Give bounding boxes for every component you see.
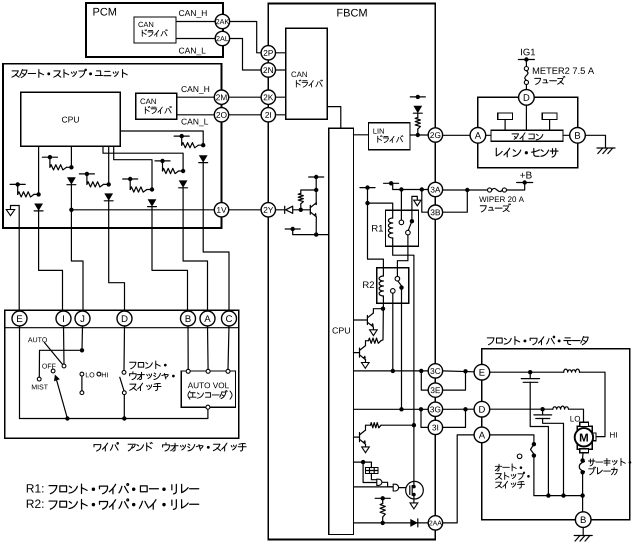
label PCM — [93, 8, 116, 16]
terminal 3C — [428, 364, 442, 378]
wire 2AL to 2N — [229, 39, 261, 71]
wire 3G line — [354, 408, 429, 410]
wire CPU to Qc base — [354, 436, 360, 438]
wire tap down (cell A) — [17, 184, 19, 194]
resistor R-E pullup — [163, 168, 179, 173]
wire resistor to node LIN — [417, 129, 419, 135]
label encoder katakana — [188, 391, 232, 400]
resistor R-Qb — [369, 338, 382, 343]
wire 2I to CAN driver — [276, 114, 286, 116]
wire Qa collector — [373, 309, 383, 313]
terminal E (motor) — [474, 364, 490, 380]
diode D-D series — [148, 199, 157, 206]
wire 3I outside riser — [443, 409, 466, 427]
relay R1 blade — [408, 221, 412, 230]
wire Qb emitter — [365, 360, 367, 363]
module box FBCM — [268, 4, 435, 540]
wire 1V internal line — [71, 209, 215, 211]
wire crystal top — [370, 462, 372, 468]
terminal 3I — [428, 420, 442, 434]
diode D-F series — [199, 155, 208, 162]
motor M body — [577, 426, 592, 449]
module box wiper washer switch — [5, 310, 239, 438]
label R1 legend katakana — [49, 484, 199, 494]
wire diode A to terminal I — [39, 211, 63, 312]
inductor L1 (HI) — [564, 369, 580, 372]
transistor Qb — [359, 348, 361, 357]
wire Qb collector to resistor — [366, 341, 369, 346]
wire 2P to CAN driver — [276, 52, 286, 54]
wire rail down (2Y) — [315, 177, 317, 205]
terminal B (switch) — [181, 311, 196, 326]
terminal 2P — [261, 46, 275, 60]
label CAN_L (SSU) — [181, 119, 208, 127]
wire 2M to 2K — [229, 96, 261, 98]
node 3C-3E tie — [419, 369, 423, 373]
label fuse katakana (WIPER) — [480, 204, 510, 212]
diode D-LIN — [413, 106, 422, 113]
ground arrow (Qa) — [370, 330, 378, 336]
auto-stop contact — [532, 453, 536, 457]
label CPU (FBCM) — [332, 327, 349, 333]
ground arrow (SSU) — [6, 210, 14, 216]
label auto-stop katakana 1 — [495, 464, 522, 471]
wire R2 coil line down — [381, 303, 383, 341]
MOSFET channel bar — [411, 486, 413, 496]
wire B to ground — [585, 135, 606, 148]
wire tap to emitter line — [293, 229, 317, 235]
wire IG1 to fuse — [525, 60, 527, 67]
label driver katakana (LIN) — [378, 136, 403, 143]
resistor R-2AA — [380, 504, 385, 518]
supply bar tap (cell B) — [42, 156, 57, 158]
terminal E (switch) — [12, 311, 27, 326]
MOSFET Q2 body — [406, 481, 424, 499]
logic gate G1 — [377, 479, 382, 485]
supply bar tap (cell C) — [79, 173, 94, 175]
CPU box (FBCM) — [329, 128, 354, 534]
wire resistor to node B1 — [67, 166, 72, 168]
wire MOSFET drain — [412, 425, 414, 486]
contact washer bottom — [122, 391, 126, 395]
ground arrow (MOSFET) — [410, 503, 418, 509]
label R2 legend latin — [27, 500, 44, 508]
terminal 2G — [428, 128, 442, 142]
wire E down — [19, 326, 21, 419]
wire J down — [81, 326, 84, 351]
wire microcomputer to B — [563, 134, 570, 136]
label MIST — [32, 385, 48, 390]
wire coil rail down — [368, 188, 384, 276]
wire tap down (cell E) — [162, 161, 164, 171]
wire CAN driver to CPU — [327, 107, 340, 129]
wire 2G to A — [443, 134, 471, 136]
relay R1 coil — [388, 218, 392, 238]
node bottom bus washer — [122, 416, 126, 420]
relay R2 contact NC — [395, 276, 400, 281]
contact LO lower — [80, 391, 84, 395]
switch blade with arrow — [57, 380, 68, 418]
resistor R-B pullup — [50, 165, 67, 170]
node bottom junction 1 — [546, 493, 550, 497]
CAN driver U10 (PCM) — [134, 17, 176, 43]
wire switch bottom bus — [20, 409, 208, 418]
wire MOSFET source — [412, 495, 414, 503]
wire diode to resistor — [417, 113, 419, 117]
label auto-stop katakana 2 — [496, 472, 530, 479]
wire gate2 to MOSFET gate — [399, 487, 406, 489]
label CAN_L (PCM) — [179, 48, 206, 56]
fuse METER2 7.5A — [524, 67, 528, 71]
diode D-B series — [67, 177, 76, 184]
wire Qc emitter — [365, 444, 367, 447]
CPU box (start-stop unit) — [21, 92, 121, 146]
node Y1 — [299, 208, 303, 212]
transistor Qc — [359, 433, 361, 442]
circuit breaker — [580, 458, 584, 462]
label HI — [610, 432, 617, 438]
node osc branch — [361, 460, 365, 464]
terminal J (switch) — [75, 311, 90, 326]
wire LO down — [81, 376, 83, 391]
wire CPU step to cell E — [103, 146, 183, 171]
encoder box AUTO VOL — [181, 371, 235, 407]
wire 2AK to 2P — [229, 22, 261, 53]
terminal B (motor) — [575, 512, 591, 528]
wire L2 to motor — [569, 409, 584, 424]
capacitor block left (rain sensor) — [498, 113, 513, 119]
terminal I (switch) — [56, 311, 71, 326]
wire resistor to node A1 — [34, 193, 39, 195]
washer blade — [120, 377, 124, 390]
label WIPER 20 A — [479, 196, 524, 202]
terminal 2AA — [428, 516, 442, 530]
wire D line — [490, 408, 553, 410]
node 2AA pull — [381, 521, 385, 525]
wire CPU to Qb base — [354, 352, 360, 354]
node motor bottom — [580, 493, 584, 497]
auto-stop blade — [531, 444, 534, 453]
wire B down (encoder) — [187, 326, 189, 370]
label METER2 7.5 A — [533, 67, 594, 74]
wire diode E to terminal A — [183, 187, 207, 311]
diode D-2Y — [284, 206, 286, 213]
wire diode F to terminal C — [203, 162, 229, 311]
label circuit breaker katakana 1 — [589, 458, 631, 465]
fuse WIPER 20A — [488, 188, 492, 192]
label washer switch katakana 3 — [130, 383, 161, 391]
terminal 1V — [214, 203, 228, 217]
wire tap down (cell D) — [129, 179, 131, 190]
supply bar tap (cell F) — [174, 135, 189, 137]
wire C down (encoder) — [228, 326, 229, 370]
label driver katakana (SSU) — [145, 106, 171, 113]
terminal 2AK — [215, 14, 229, 28]
transistor Q1 (2Y buffer) — [309, 205, 311, 214]
label IG1 — [521, 49, 535, 56]
label R1 legend latin — [27, 484, 44, 492]
arrow to 3B (open triangle) — [414, 200, 421, 206]
module box rain sensor — [478, 97, 578, 167]
node 3G-3I tie — [419, 407, 423, 411]
node 3A-3B tie — [420, 187, 424, 191]
label wiper and washer switch katakana — [94, 442, 246, 451]
label +B — [520, 172, 531, 179]
terminal 2O — [214, 108, 228, 122]
supply bar tap (2AA pull) — [375, 497, 390, 499]
wire R2 coil down — [382, 296, 384, 303]
terminal 2Y — [261, 203, 275, 217]
terminal 3A — [428, 182, 442, 196]
relay R1 box — [386, 210, 419, 246]
label AUTO VOL — [188, 382, 229, 388]
wire resistor to R1 line — [381, 424, 414, 426]
wire resistor up bend — [301, 190, 316, 194]
label R2 legend katakana — [49, 499, 199, 509]
label rain sensor katakana — [496, 148, 558, 157]
supply bar tap (LIN pullup) — [410, 96, 425, 98]
wire tap down (cell C) — [86, 174, 88, 185]
wire 3A rail to R1 contact — [400, 190, 402, 221]
terminal 2N — [261, 63, 275, 77]
wire resistor to node E1 — [179, 170, 184, 172]
terminal D (motor) — [474, 401, 490, 417]
relay R2 box — [377, 268, 409, 304]
label R2 — [363, 281, 374, 288]
wire tap down (cell F) — [181, 136, 183, 145]
wire CAN_L SSU driver to 2O — [177, 114, 214, 116]
contact encoder B — [186, 369, 190, 373]
terminal 3G — [428, 402, 442, 416]
wire 2Y to diode — [276, 209, 285, 211]
wire 2N to CAN driver — [276, 69, 286, 71]
wire CPU to node A1 — [38, 146, 40, 194]
terminal D (rain sensor) — [519, 90, 535, 106]
node bottom junction 2 — [561, 493, 565, 497]
wire CPU to node B1 — [70, 146, 72, 167]
wire A down (encoder) — [207, 326, 210, 370]
node A1 — [36, 192, 40, 196]
relay R2 coil — [379, 276, 383, 296]
wire auto-stop down — [534, 456, 583, 496]
node Y3 — [314, 232, 318, 236]
label LO — [570, 416, 580, 422]
wire +B to fuse — [507, 183, 525, 191]
label LIN — [373, 128, 383, 133]
MOSFET gate bar — [409, 486, 411, 495]
label M (motor) — [580, 434, 588, 442]
label CPU (SSU) — [62, 117, 79, 123]
wire R2 common to 3G line — [401, 288, 403, 410]
wire R1 common up hook — [412, 196, 417, 221]
supply bar tap (Q1 emitter) — [285, 228, 300, 230]
wire fuse to D — [525, 85, 527, 90]
wire 3G to D — [443, 408, 475, 410]
diode D-2AA — [410, 519, 418, 527]
wire J to MIST — [39, 350, 82, 377]
contact washer top — [122, 371, 126, 375]
resistor R-D pullup — [130, 187, 147, 192]
wire tap down (cell B) — [49, 157, 51, 167]
relay R1 common — [410, 219, 414, 223]
node F1 — [201, 143, 205, 147]
capacitor block right (rain sensor) — [542, 113, 557, 119]
label LO — [86, 372, 94, 377]
wire CPU to node C1 — [108, 146, 110, 184]
logic gate G2 — [393, 484, 398, 491]
node R1 contact feed — [399, 187, 403, 191]
wire diode to node Y1 — [293, 209, 310, 211]
wire crystal to gate1 — [371, 473, 376, 479]
wire resistor top to rail — [300, 204, 302, 210]
wire resistor to node F1 — [198, 144, 203, 146]
supply bar tap (2Y rail) — [309, 176, 324, 178]
label fuse katakana (METER2) — [535, 76, 565, 84]
wire 3B outside riser — [443, 190, 467, 212]
wire CPU right to cell F — [120, 131, 203, 145]
contact AUTO/I — [62, 364, 66, 368]
supply symbol +B — [517, 182, 533, 184]
node LIN output — [416, 133, 420, 137]
wire Q1 emitter down to CPU — [316, 217, 329, 235]
label OFF — [42, 364, 55, 369]
wire CPU to gate2 — [354, 486, 394, 488]
terminal 3E — [428, 383, 442, 397]
label R1 — [372, 225, 383, 232]
contact HI — [97, 372, 101, 376]
terminal D (switch) — [117, 311, 132, 326]
supply symbol IG1 — [518, 59, 534, 61]
node MOSFET drain — [412, 485, 416, 489]
auto-stop open contact — [517, 454, 522, 459]
wire resistor to node C1 — [104, 183, 109, 185]
wire LIN driver to 2G — [410, 134, 428, 136]
node Qa collector — [381, 307, 385, 311]
label CAN (SSU driver) — [140, 99, 155, 105]
node R1 drive — [412, 423, 416, 427]
wire branch to R1 coil — [368, 203, 393, 218]
supply bar tap (coil rail) — [360, 187, 375, 189]
wire diode B down — [71, 184, 83, 311]
node MOSFET source — [412, 493, 416, 497]
wire CAN_L PCM driver to 2AL — [176, 38, 216, 40]
wire washer to bottom — [123, 395, 125, 419]
label AUTO — [28, 337, 47, 342]
wire R2 NO to 3C line — [392, 293, 394, 371]
supply bar tap (cell E) — [155, 160, 170, 162]
wire breaker to B — [582, 472, 584, 512]
wire D down (washer) — [123, 326, 126, 371]
node 3C-R2 — [391, 369, 395, 373]
label start-stop unit katakana — [12, 69, 127, 77]
relay R1 contact NO — [406, 230, 411, 235]
label washer switch katakana 1 — [130, 361, 167, 369]
wire Qa emitter — [372, 327, 374, 330]
module box PCM — [86, 3, 223, 57]
wire 3E riser — [421, 371, 429, 390]
wire 3C to E — [443, 370, 475, 373]
ground (motor) — [574, 535, 592, 537]
terminal 2I — [261, 108, 275, 122]
diode D-A series — [34, 204, 43, 211]
CAN driver U11 (SSU) — [136, 93, 177, 119]
diode D-E series — [179, 180, 188, 187]
wire resistor to node D1 — [147, 189, 152, 191]
wire diode D to terminal B — [152, 206, 188, 311]
node cap2 — [540, 407, 544, 411]
terminal C (switch) — [222, 311, 237, 326]
node 3C-3E outside tie — [463, 369, 467, 373]
wire A to microcomputer — [485, 134, 491, 136]
wire Q1 collector to rail — [315, 203, 317, 205]
wire 3E outside riser — [443, 371, 466, 390]
wire 3C line — [354, 370, 429, 372]
wire CPU to LIN driver — [354, 134, 369, 136]
label front wiper motor katakana — [487, 336, 588, 345]
module box start-stop unit — [3, 64, 222, 228]
wire resistor to 2AA line — [382, 517, 384, 523]
node J common — [80, 348, 84, 352]
node 3G-3I outside tie — [463, 407, 467, 411]
oscillator crystal box — [366, 468, 379, 474]
transistor Qa (R2 driver) — [366, 316, 368, 325]
label driver katakana (FBCM) — [296, 80, 322, 87]
resistor R-F pullup — [182, 143, 199, 148]
wire 3B riser — [422, 190, 429, 213]
wire 2AA to A — [443, 435, 475, 523]
wire 2AA line — [354, 522, 429, 524]
module box front wiper motor — [482, 349, 630, 520]
node Y2 on rail — [314, 188, 318, 192]
node 3B tie (outside) — [465, 188, 469, 192]
wire R1 NO down to R2 — [397, 235, 408, 277]
wire R1 coil down — [393, 238, 414, 425]
relay R2 blade — [398, 281, 401, 286]
wire B to ground (motor) — [582, 527, 584, 534]
terminal A (switch) — [200, 311, 215, 326]
resistor R-LIN pullup — [415, 118, 420, 130]
wire branch down to gate1 — [363, 462, 377, 482]
terminal 2AL — [215, 31, 229, 45]
LIN driver U2 — [369, 123, 411, 150]
wire 3I riser — [421, 409, 429, 427]
terminal 2K — [261, 90, 275, 104]
wire 2K to CAN driver — [276, 96, 286, 98]
wire L1 to HI — [580, 372, 606, 436]
label CAN (FBCM driver) — [291, 72, 306, 78]
terminal A (motor) — [474, 427, 490, 443]
label CAN (PCM driver) — [138, 22, 153, 27]
wire ground bracket to terminal E — [11, 206, 20, 312]
label circuit breaker katakana 2 — [589, 467, 618, 475]
node 1V junction — [69, 208, 73, 212]
label FBCM — [337, 9, 366, 17]
wire diode C to terminal D — [109, 200, 125, 311]
wire I down — [63, 326, 66, 364]
capacitor C2 — [542, 409, 544, 415]
terminal 3B — [428, 205, 442, 219]
node E1 — [181, 169, 185, 173]
contact OFF — [51, 369, 55, 373]
terminal A (rain sensor) — [470, 128, 486, 144]
terminal strip line — [5, 327, 239, 329]
wire gate1 to gate2 — [382, 482, 393, 487]
wire A line to auto-stop — [490, 435, 534, 442]
contact encoder bottom — [206, 405, 210, 409]
microcomputer box — [491, 130, 563, 141]
wire motor to breaker — [582, 453, 584, 458]
contact encoder C — [226, 369, 230, 373]
